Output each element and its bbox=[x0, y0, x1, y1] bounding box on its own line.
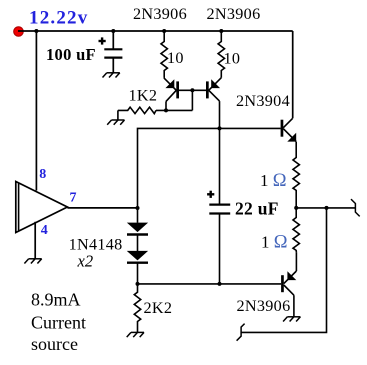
junction output branch bbox=[325, 206, 329, 210]
svg-text:1 Ω: 1 Ω bbox=[260, 171, 287, 191]
terminal upper output bbox=[351, 199, 360, 216]
capacitor C2 22uF bbox=[207, 191, 230, 284]
power node red dot bbox=[14, 27, 24, 37]
wire op-amp output pin 7 bbox=[67, 207, 137, 209]
ground op-amp pin 4 bbox=[24, 259, 41, 264]
junction diode bottom node bbox=[136, 282, 140, 286]
capacitor C1 100uF bbox=[99, 31, 123, 73]
diode D2 1N4148 bbox=[127, 251, 148, 284]
wire output rail bbox=[296, 207, 355, 209]
junction base tie bbox=[190, 88, 194, 92]
wire mirror node bbox=[156, 109, 192, 111]
transistor Q2 2N3906 (right mirror half) bbox=[206, 78, 221, 101]
resistor R5 1K2 bbox=[118, 107, 156, 113]
junction R3-R4 bbox=[294, 206, 298, 210]
svg-text:1K2: 1K2 bbox=[129, 87, 158, 105]
resistor R6 2K2 bbox=[134, 284, 140, 333]
svg-text:4: 4 bbox=[41, 223, 48, 238]
svg-text:100 uF: 100 uF bbox=[46, 45, 96, 64]
wire op-amp V+ (pin 8 supply) bbox=[35, 31, 37, 191]
resistor R1 10 bbox=[161, 31, 167, 78]
op-amp U1 bbox=[16, 182, 68, 233]
junction top rail R2 branch bbox=[219, 29, 223, 33]
transistor Q4 2N3906 (output) bbox=[281, 253, 296, 317]
junction top rail op-amp branch bbox=[34, 29, 38, 33]
svg-text:source: source bbox=[31, 334, 78, 354]
ground Q4 collector bbox=[283, 317, 300, 322]
junction top rail C1 branch bbox=[111, 29, 115, 33]
wire output return branch bbox=[241, 208, 326, 333]
resistor R4 1 ohm bbox=[293, 208, 299, 253]
junction output node bbox=[136, 206, 140, 210]
ground under 1K2 bbox=[107, 120, 124, 125]
wire Q2 collector down / C2 branch bbox=[219, 101, 221, 205]
resistor R2 10 bbox=[218, 31, 224, 78]
terminal lower output bbox=[237, 324, 245, 341]
junction C2 bottom bbox=[218, 282, 222, 286]
svg-text:Current: Current bbox=[31, 312, 86, 332]
wire top rail bbox=[18, 30, 293, 32]
svg-text:2K2: 2K2 bbox=[144, 299, 173, 317]
wire diode node to Q4 base bbox=[138, 283, 282, 285]
svg-text:12.22v: 12.22v bbox=[29, 8, 88, 29]
svg-text:8: 8 bbox=[39, 167, 46, 182]
junction top rail R1 branch bbox=[162, 29, 166, 33]
svg-text:1 Ω: 1 Ω bbox=[261, 233, 288, 253]
ground under C1 bbox=[103, 73, 120, 78]
svg-text:2N3904: 2N3904 bbox=[236, 92, 290, 110]
resistor R3 1 ohm bbox=[293, 142, 299, 208]
diode D1 1N4148 bbox=[127, 208, 148, 251]
wire 1K2 to ground bbox=[117, 110, 119, 120]
junction mid rail Q2 collector bbox=[218, 126, 222, 130]
transistor Q1 2N3906 (left mirror half) bbox=[164, 78, 179, 111]
wire base tie down bbox=[191, 90, 193, 110]
wire op-amp pin 4 bbox=[34, 222, 36, 259]
transistor Q3 2N3904 bbox=[281, 31, 297, 142]
svg-text:x2: x2 bbox=[77, 252, 94, 271]
wire mid rail to 2N3904 base bbox=[138, 128, 281, 208]
wire Q1-Q2 base tie bbox=[179, 89, 206, 91]
svg-text:22 uF: 22 uF bbox=[235, 199, 279, 219]
svg-text:2N3906: 2N3906 bbox=[133, 5, 187, 23]
svg-text:2N3906: 2N3906 bbox=[207, 5, 261, 23]
svg-text:2N3906: 2N3906 bbox=[237, 297, 291, 315]
junction Q1 collector bbox=[164, 108, 168, 112]
svg-text:8.9mA: 8.9mA bbox=[31, 290, 81, 310]
svg-text:7: 7 bbox=[70, 190, 77, 205]
svg-text:10: 10 bbox=[167, 49, 184, 67]
ground under 2K2 bbox=[127, 332, 144, 337]
svg-text:10: 10 bbox=[224, 50, 241, 68]
